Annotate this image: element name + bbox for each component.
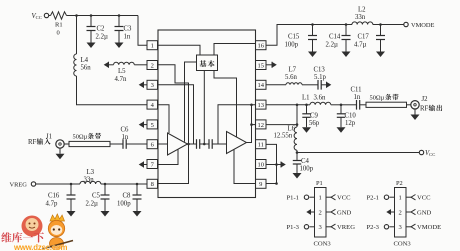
svg-text:R1: R1 (55, 22, 63, 29)
capacitor C13 (318, 80, 321, 90)
svg-text:4.7n: 4.7n (115, 76, 127, 83)
svg-text:P2-3: P2-3 (367, 224, 380, 231)
ground below C4 (293, 173, 302, 179)
wire Vcc rail top (77, 15, 139, 17)
label GND P2 (406, 209, 432, 216)
watermark text 维库一下 (1, 232, 44, 242)
svg-text:L2: L2 (358, 7, 366, 14)
label GND P1 (326, 209, 352, 216)
arrow stub pin3 (144, 84, 148, 86)
svg-text:100p: 100p (117, 201, 131, 208)
wire C6 to pin6 (126, 143, 147, 145)
microstrip 50ohm input (69, 141, 110, 146)
svg-text:12p: 12p (345, 120, 356, 127)
svg-text:GND: GND (337, 209, 352, 216)
label C16 4.7p (46, 193, 60, 208)
svg-text:P2-1: P2-1 (367, 195, 379, 202)
label L3 33n (84, 169, 95, 184)
svg-text:50Ωµ: 50Ωµ (370, 95, 385, 102)
svg-text:C13: C13 (314, 67, 326, 74)
label C3 1n (124, 26, 133, 41)
pin 6 (147, 140, 158, 149)
svg-text:L4: L4 (81, 57, 89, 64)
pin P2.3 (367, 224, 403, 231)
arrow terminal L5 input (104, 62, 109, 68)
wire pin16 riser (266, 25, 313, 46)
svg-text:C8: C8 (123, 193, 132, 200)
label L1 3.6n (302, 95, 326, 102)
node pin9 junction (275, 182, 278, 185)
label 50ohm strip output (370, 94, 399, 102)
capacitor C14 (342, 25, 351, 52)
label C9 56p (309, 113, 320, 128)
terminal VMODE (381, 22, 435, 29)
wire pin13 to output network (266, 104, 307, 106)
arrow stub pin5 (144, 124, 148, 126)
svg-text:VMODE: VMODE (411, 22, 435, 29)
wire L6 to C4 node (296, 150, 298, 152)
wire bias right branch to amp A2 (214, 71, 237, 138)
wire rail down to pin1 (138, 16, 147, 46)
node amp A2 output pin12 (250, 123, 253, 126)
label L5 4.7n (115, 68, 127, 83)
capacitor C15 (308, 25, 317, 52)
svg-text:5.6n: 5.6n (285, 74, 297, 81)
pin P2.1 (367, 195, 402, 202)
ground below J1 (56, 148, 65, 159)
connector J2 (411, 101, 419, 109)
pin 10 (256, 160, 267, 169)
svg-text:C15: C15 (288, 34, 300, 41)
wire C-int2 to amp A2 (212, 143, 226, 145)
svg-text:VREG: VREG (10, 182, 28, 189)
label VCC P2 (406, 195, 431, 202)
wire pin6 to amp A1 input (158, 143, 168, 145)
label VCC P1 (326, 195, 351, 202)
svg-text:2.2µ: 2.2µ (326, 42, 338, 49)
svg-text:56p: 56p (309, 120, 320, 127)
svg-text:www.dzsc.com: www.dzsc.com (13, 243, 67, 251)
svg-text:C17: C17 (358, 34, 370, 41)
pin 9 (256, 179, 267, 188)
wire strip to J2 (407, 104, 411, 106)
svg-text:VCC: VCC (337, 195, 351, 202)
label C2 2.2u (96, 26, 108, 41)
wire C10 to C11 (341, 104, 357, 106)
capacitor C-int2 coupling (209, 139, 212, 149)
op-amp A2 second stage (227, 132, 247, 154)
label C8 100p (117, 193, 131, 208)
ground below C17 (376, 52, 385, 58)
label VREG P1 (326, 224, 355, 231)
svg-text:1n: 1n (122, 134, 129, 141)
svg-text:2: 2 (399, 209, 402, 216)
label C13 5.1p (314, 67, 327, 82)
wire pin3 internal (158, 85, 194, 144)
svg-text:VREG: VREG (337, 224, 355, 231)
pin P1.2 (311, 209, 322, 216)
terminal Vcc right (419, 150, 435, 157)
capacitor C-int1 coupling (197, 139, 200, 149)
label J2 RF output (420, 96, 442, 113)
wire pin1 to bias block (158, 45, 200, 55)
node pin10 junction (275, 163, 278, 166)
node Vcc junction (75, 14, 78, 17)
ground below C9 (302, 127, 311, 133)
svg-text:50Ωµ: 50Ωµ (73, 134, 88, 141)
pin 3 (147, 80, 158, 89)
wire pin10 stub (266, 164, 277, 166)
svg-text:C5: C5 (92, 193, 101, 200)
wire R1 to node (67, 15, 77, 17)
node C3 tap (118, 14, 121, 17)
node amp A1 output junction (187, 143, 190, 146)
wire pin11 bus (266, 144, 277, 183)
svg-text:4.7µ: 4.7µ (354, 42, 366, 49)
capacitor C9 (302, 105, 310, 128)
wire between internal caps (200, 143, 209, 145)
label 基本 (199, 60, 214, 67)
svg-text:3.6n: 3.6n (314, 95, 326, 102)
svg-text:14: 14 (257, 82, 264, 89)
label 50ohm strip input (73, 133, 102, 141)
terminal VREG (10, 182, 36, 189)
svg-text:4.7p: 4.7p (46, 201, 58, 208)
wire C15 to C14 (313, 24, 347, 26)
pin 16 (256, 41, 267, 50)
label C11 1n (351, 87, 362, 102)
block 基本 bias (197, 55, 218, 71)
label L2 33n (355, 7, 366, 22)
svg-text:L6: L6 (288, 126, 296, 133)
svg-text:33n: 33n (84, 177, 95, 184)
node C17 tap (379, 23, 382, 26)
capacitor C6 (123, 139, 126, 149)
op-amp U1 IC body (158, 30, 256, 198)
svg-text:L3: L3 (87, 169, 95, 176)
svg-text:33n: 33n (355, 14, 366, 21)
pin 15 (256, 61, 267, 70)
node C14 tap (345, 23, 348, 26)
svg-text:C9: C9 (310, 113, 319, 120)
svg-text:100p: 100p (300, 166, 314, 173)
arrow after C13 (321, 84, 326, 86)
pin 5 (147, 120, 158, 129)
svg-text:C4: C4 (301, 158, 310, 165)
capacitor C17 (376, 25, 385, 52)
label C5 2.2u (86, 193, 101, 208)
ground below C16 (67, 211, 76, 217)
node internal cap junction (203, 143, 206, 146)
wire L7 to C13 (302, 84, 318, 86)
pin 14 (256, 80, 267, 89)
svg-text:0: 0 (57, 30, 60, 37)
svg-text:C16: C16 (48, 193, 60, 200)
label L6 12.55n (274, 126, 296, 140)
wire pin7 to amp A1 bottom (158, 149, 178, 164)
label L4 56n (81, 57, 92, 72)
wire bias bottom branch to cap node (203, 71, 205, 145)
node C5 tap (104, 183, 107, 186)
capacitor C10 (337, 105, 345, 128)
svg-text:P1-1: P1-1 (287, 195, 299, 202)
wire C11 to microstrip (360, 104, 366, 106)
node C4 tap (296, 151, 299, 154)
node C15 tap (311, 23, 314, 26)
svg-text:15: 15 (257, 62, 264, 69)
inductor L1 (307, 102, 342, 105)
svg-text:12.55n: 12.55n (274, 133, 293, 140)
svg-text:VMODE: VMODE (417, 224, 441, 231)
capacitor C3 (115, 16, 124, 43)
inductor L3 (71, 181, 105, 184)
arrow stub pin7 (144, 164, 148, 166)
svg-text:5: 5 (151, 122, 154, 129)
arrow stub pin15 (266, 64, 272, 66)
wire C8 to pin8 (137, 183, 147, 185)
label R1 0 (55, 22, 63, 37)
pin 1 (147, 41, 158, 50)
svg-text:1: 1 (399, 195, 402, 202)
svg-text:C14: C14 (329, 34, 341, 41)
connector P2 (395, 180, 407, 237)
wire amp A2 bottom to pin9 (234, 149, 256, 183)
pin 4 (147, 100, 158, 109)
svg-text:C3: C3 (124, 26, 133, 33)
wire L4 to pin4 (77, 76, 148, 105)
wire amp A2 output to pin12 (247, 105, 252, 143)
node C8 tap (136, 183, 139, 186)
node C16 tap (70, 183, 73, 186)
svg-text:L5: L5 (118, 68, 126, 75)
op-amp A1 first stage (168, 133, 188, 155)
wire pin4 to amp A1 top (158, 105, 169, 133)
capacitor C11 (357, 100, 360, 110)
pin P2.2 (391, 209, 402, 216)
svg-text:11: 11 (258, 142, 264, 149)
watermark mascot (42, 214, 73, 250)
wire node to L4 (76, 16, 78, 55)
label C6 1n (121, 127, 130, 142)
wire VREG to node (36, 183, 71, 185)
svg-text:1: 1 (319, 195, 322, 202)
svg-text:16: 16 (257, 43, 264, 50)
label VMODE P2 (406, 224, 441, 231)
svg-text:RF: RF (420, 106, 429, 113)
inductor L7 (286, 83, 302, 85)
svg-text:3: 3 (151, 82, 154, 89)
pin 12 (256, 120, 267, 129)
watermark logo circle (22, 216, 43, 237)
wire pin13 internal branch (218, 105, 256, 144)
svg-text:P1-3: P1-3 (287, 224, 300, 231)
pin P1.3 (287, 224, 323, 231)
ground below C15 (308, 52, 317, 58)
ground below J2 (411, 109, 420, 120)
svg-text:VCC: VCC (417, 195, 431, 202)
ground below C3 (115, 43, 124, 49)
wire pin14 to L7 (266, 84, 286, 86)
svg-text:CON3: CON3 (314, 241, 332, 248)
pin 13 (256, 100, 267, 109)
node C10 tap (340, 104, 343, 107)
svg-text:9: 9 (259, 181, 262, 188)
label C15 100p (285, 34, 300, 49)
inductor L4 (74, 54, 77, 76)
svg-text:C10: C10 (345, 113, 357, 120)
wire J1 to microstrip (64, 143, 69, 145)
terminal Vcc input (32, 13, 49, 20)
resistor R1 (49, 12, 67, 19)
svg-text:VCC: VCC (425, 150, 435, 157)
label C14 2.2u (326, 34, 341, 49)
ground below C8 (133, 211, 142, 217)
arrow stub pin10 (277, 164, 282, 166)
svg-text:L7: L7 (289, 67, 297, 74)
svg-text:2: 2 (151, 62, 154, 69)
svg-text:2.2µ: 2.2µ (86, 201, 98, 208)
ground below C5 (101, 211, 110, 217)
node pin12 bus (296, 123, 299, 126)
wire C5 to C8 (105, 183, 137, 185)
capacitor C2 (87, 16, 96, 43)
svg-text:RF: RF (28, 139, 37, 146)
svg-text:J1: J1 (46, 133, 52, 140)
svg-text:L1: L1 (302, 95, 310, 102)
svg-text:10: 10 (257, 161, 264, 168)
svg-text:GND: GND (417, 209, 432, 216)
label C10 12p (345, 113, 357, 128)
svg-text:P1: P1 (316, 180, 323, 187)
node pin13 bus (296, 104, 299, 107)
node C9 tap (305, 104, 308, 107)
wire bias left branch (185, 62, 197, 142)
microstrip 50ohm output (366, 102, 407, 107)
capacitor C5 (101, 184, 110, 211)
wire pin2 staircase to node (158, 65, 189, 184)
svg-text:2.2µ: 2.2µ (96, 34, 108, 41)
svg-text:100p: 100p (285, 42, 299, 49)
svg-text:1n: 1n (124, 34, 131, 41)
svg-text:8: 8 (151, 181, 154, 188)
wire A1 output to C-int1 (189, 143, 197, 145)
svg-text:P2: P2 (396, 180, 403, 187)
ground below C2 (87, 43, 96, 49)
capacitor C16 (67, 184, 76, 211)
svg-text:CON3: CON3 (394, 241, 412, 248)
svg-text:VCC: VCC (32, 13, 42, 20)
label C17 4.7u (354, 34, 369, 49)
svg-text:C6: C6 (121, 127, 130, 134)
pin P1.1 (287, 195, 322, 202)
inductor L2 (346, 22, 381, 25)
svg-text:1n: 1n (354, 94, 361, 101)
inductor L5 (109, 62, 148, 65)
node amp A2 output pin13 (250, 104, 253, 107)
svg-text:5.1p: 5.1p (314, 74, 326, 81)
ground below C10 (337, 127, 346, 133)
pin 2 (147, 61, 158, 70)
pin 8 (147, 179, 158, 188)
svg-text:J2: J2 (422, 96, 429, 103)
inductor L6 (294, 127, 297, 150)
node C2 tap (90, 14, 93, 17)
svg-text:1: 1 (151, 43, 154, 50)
ground below C14 (342, 52, 351, 58)
svg-text:2: 2 (319, 209, 322, 216)
label C4 100p (300, 158, 314, 173)
capacitor C8 (133, 184, 142, 211)
wire strip to C6 (110, 143, 123, 145)
wire pin12 link (266, 105, 297, 127)
connector J1 (56, 140, 64, 148)
connector P1 (315, 180, 327, 237)
capacitor C4 (293, 153, 301, 174)
svg-text:C2: C2 (97, 26, 106, 33)
svg-text:C11: C11 (351, 87, 362, 94)
svg-text:56n: 56n (81, 65, 92, 72)
pin 7 (147, 160, 158, 169)
label J1 RF input (37, 133, 52, 144)
svg-text:12: 12 (257, 122, 264, 129)
wire C4 node to Vcc terminal (297, 152, 419, 154)
svg-text:13: 13 (257, 102, 264, 109)
wire pin16 to bias block (214, 44, 256, 56)
pin 11 (256, 140, 267, 149)
label L7 5.6n (285, 67, 297, 82)
